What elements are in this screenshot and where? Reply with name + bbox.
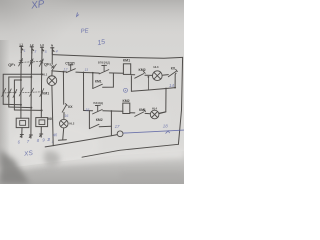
KM2 NC contact [135, 71, 146, 78]
bright centre of paper [0, 75, 170, 165]
bottom-left corner dark shadow [0, 150, 30, 184]
svg-text:КМ2: КМ2 [123, 99, 130, 103]
junction dot nazad feed [83, 72, 85, 74]
power column L3 [40, 53, 43, 117]
svg-text:вперед: вперед [98, 60, 111, 64]
HL2 / KX branch [63, 71, 65, 73]
node dot L3 tap [41, 73, 43, 75]
swap wire from L3 to left pole [3, 74, 41, 104]
rail after STOP [76, 72, 99, 73]
lamp HL4 [150, 110, 159, 119]
control bottom rail [45, 135, 117, 147]
merge dot c [41, 109, 43, 111]
drawing frame top border [52, 55, 182, 59]
motor lead 1 [21, 128, 23, 135]
svg-text:КМ1: КМ1 [123, 58, 130, 62]
breaker QF2 [52, 64, 57, 71]
merge dot a [20, 104, 22, 106]
svg-text:назад: назад [93, 101, 104, 105]
wire coil to KM1 NC [130, 112, 135, 114]
svg-text:5: 5 [45, 50, 47, 54]
contactor KM2 pole c [13, 89, 17, 97]
svg-text:L2: L2 [30, 43, 34, 47]
lamp HL1 [47, 76, 57, 86]
blue arrow mark [166, 131, 170, 134]
lamp HL2 [60, 119, 69, 128]
svg-text:12: 12 [64, 68, 68, 72]
svg-text:4: 4 [56, 50, 58, 54]
svg-text:↓: ↓ [51, 139, 53, 144]
svg-text:HL4: HL4 [152, 107, 157, 111]
svg-text:КМ1: КМ1 [42, 91, 49, 95]
drawing frame right border [178, 57, 182, 144]
rail connector circle [117, 131, 123, 137]
svg-text:КХ: КХ [68, 105, 73, 109]
contactor KM2 pole a [2, 88, 6, 96]
drop from coil node [130, 76, 132, 91]
right lamp rail [159, 89, 166, 114]
motor lead 3 [40, 127, 42, 134]
KM2 coil [123, 103, 130, 113]
STOP button [66, 65, 75, 73]
swap wire from L2 to middle pole [9, 77, 32, 107]
bottom out-of-focus band below paper edge [0, 151, 184, 184]
control top rail [52, 71, 66, 72]
svg-text:L3: L3 [40, 43, 44, 47]
HL2 end bar [58, 139, 66, 142]
node dot L2 tap [30, 76, 32, 78]
svg-text:L1: L1 [20, 42, 24, 46]
svg-text:КХ: КХ [171, 67, 176, 71]
VPERED button [99, 65, 109, 74]
lamp HL3 [152, 71, 162, 81]
svg-text:15: 15 [97, 39, 106, 47]
svg-text:КМ2: КМ2 [139, 68, 146, 72]
svg-text:N: N [51, 44, 53, 48]
blue circled mark [124, 88, 128, 92]
breaker QF1 pole 3 [39, 59, 43, 66]
svg-text:СТОП: СТОП [65, 62, 75, 66]
KM2 output wire b [9, 106, 32, 109]
QF1 link dashed [19, 61, 41, 64]
svg-text:HL2: HL2 [69, 122, 74, 126]
svg-text:3: 3 [34, 50, 36, 54]
KM2 hold right vertical to rail [110, 111, 112, 135]
merge dot b [30, 107, 32, 109]
XS pin 1 [20, 135, 23, 138]
blue pen line continuing bottom rail [123, 130, 184, 133]
KM2 output wire a [3, 103, 21, 106]
XS pin 3 [40, 134, 43, 137]
drop from HL3 left node [147, 77, 149, 90]
bright paper edge streak [0, 149, 184, 173]
connector pin L2 [30, 47, 33, 53]
svg-text:18: 18 [163, 124, 168, 129]
top-left corner shadow [0, 0, 80, 60]
KX vertical contact [62, 104, 67, 113]
HL1 column down [52, 86, 53, 146]
paper background [0, 0, 184, 184]
KM1 bank link dashed [20, 91, 43, 94]
svg-text:HL3: HL3 [154, 65, 159, 69]
rail to KM1 coil [109, 72, 123, 74]
svg-text:КМ1: КМ1 [139, 108, 146, 112]
connector pin L1 [20, 46, 23, 52]
handwriting small tick [77, 13, 80, 17]
blue wire extension [123, 130, 184, 133]
drawing frame bottom border [82, 144, 178, 157]
svg-text:QF2: QF2 [44, 62, 52, 67]
contactor KM2 pole b [7, 89, 11, 97]
svg-text:14: 14 [169, 83, 174, 88]
svg-text:17: 17 [115, 124, 120, 129]
connector pin L3 [41, 47, 44, 53]
wire to HL3 [145, 74, 153, 76]
thermal relay KK box 2 [36, 118, 48, 127]
svg-text:КМ2: КМ2 [96, 118, 103, 122]
contactor KM1 pole b [30, 88, 34, 96]
KM1 NC contact [135, 110, 146, 117]
KM2 output wire c [14, 109, 41, 111]
swap wire from L1 to right pole [14, 80, 21, 110]
wire coil to KM2 contact [131, 74, 135, 76]
top edge band [0, 0, 184, 34]
nazad feed vertical [83, 73, 85, 111]
KX drop wire [174, 73, 177, 87]
power column L1 [20, 53, 22, 119]
breaker QF1 pole 1 [19, 59, 23, 66]
KM1 hold contact [92, 73, 94, 89]
KM1 coil [123, 64, 130, 75]
HL1 branch [51, 71, 53, 76]
nazad row [84, 110, 93, 112]
power column L2 [30, 53, 33, 135]
KM2 hold contact [88, 111, 90, 129]
svg-text:КМ1: КМ1 [95, 80, 102, 84]
thermal relay KK box 1 [16, 118, 29, 127]
breaker QF1 pole 2 [29, 59, 33, 66]
KX contact [168, 69, 177, 76]
KM2 bank link dashed [2, 91, 16, 94]
left edge shading [0, 40, 10, 170]
bottom-right slight shade [120, 172, 184, 184]
connector pin N [51, 48, 54, 54]
wire HL3 to KX [162, 74, 168, 77]
node dot L1 tap [20, 79, 22, 81]
svg-text:1: 1 [24, 49, 26, 53]
junction dot KM1 hold feed [92, 72, 94, 74]
svg-text:3: 3 [47, 137, 50, 142]
shadow blob under paper edge left-mid [44, 151, 60, 166]
XS pin 2 [29, 135, 32, 138]
svg-text:HL1: HL1 [42, 73, 47, 77]
svg-text:13: 13 [85, 68, 89, 72]
svg-text:QF1: QF1 [8, 62, 16, 67]
lower link wire [131, 88, 175, 92]
QF2 column from N pin [51, 54, 53, 64]
contactor KM1 pole a [19, 88, 23, 96]
svg-text:ХР: ХР [29, 0, 45, 12]
NAZAD button [93, 105, 103, 114]
fold shadow curve along paper edge [0, 167, 55, 174]
contactor KM1 pole c [40, 89, 44, 97]
svg-text:ХS: ХS [23, 150, 34, 158]
